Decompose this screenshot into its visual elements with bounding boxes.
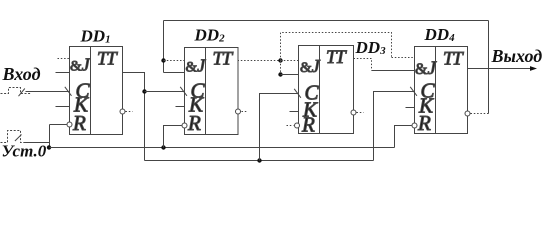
- wire: Q1 bus: [145, 160, 374, 162]
- dynamic input slash at DD4 C: [410, 87, 417, 96]
- wire: Q1 bus up to C of DD4: [374, 92, 415, 161]
- svg-text:R: R: [301, 113, 315, 137]
- svg-text:DD3: DD3: [355, 38, 387, 57]
- dynamic input slash at DD3 C: [294, 89, 301, 98]
- svg-text:Уст.0: Уст.0: [2, 142, 47, 161]
- DD3 divider: [319, 46, 321, 134]
- wire: Q2 down to J2 of DD3 (dotted riser): [280, 61, 282, 75]
- dynamic input slash at DD2 C: [180, 87, 187, 96]
- DD4 divider: [435, 47, 437, 134]
- dynamic input slash at DD1 C: [65, 87, 72, 96]
- DD2 Qbar stub (dotted): [242, 111, 249, 113]
- DD3 Qbar bubble: [351, 110, 356, 115]
- DD1 Qbar stub (dotted): [126, 111, 133, 113]
- flip-flop DD1: [56, 27, 133, 136]
- reset pulse waveform symbol: [1, 131, 26, 143]
- DD2 R bubble: [182, 123, 187, 128]
- output arrowhead: [530, 66, 537, 71]
- wire: Q2 up over DD3 (dotted): [281, 33, 392, 61]
- flip-flop DD2: [176, 26, 249, 136]
- DD1 J2 stub: [56, 72, 70, 74]
- svg-text:Вход: Вход: [2, 64, 41, 84]
- wire: top bus left riser to DD2 J inputs: [163, 21, 165, 73]
- wire: Q4 to output arrow: [468, 68, 533, 70]
- DD3 Qbar stub (dotted): [357, 112, 364, 114]
- wire: reset waveform to node: [24, 142, 50, 144]
- node: Q1 to C2: [142, 89, 146, 93]
- svg-text:&J: &J: [300, 56, 321, 76]
- wire: riser to C of DD3: [260, 94, 299, 161]
- wire: Q2 to &J of DD3 (dotted): [281, 60, 299, 62]
- svg-text:&J: &J: [186, 56, 207, 76]
- DD4 Qbar bubble: [465, 111, 470, 116]
- edge slash on input waveform: [19, 89, 25, 97]
- node: J-input split: [161, 58, 165, 62]
- DD1 K stub: [56, 106, 70, 108]
- flip-flop DD3: [287, 38, 387, 137]
- wire: riser to R of DD2: [164, 126, 182, 148]
- DD4 K stub: [406, 107, 415, 109]
- DD2 K stub: [176, 106, 185, 108]
- wire: Q2 from DD2 (dotted): [238, 60, 281, 62]
- svg-text:TT: TT: [443, 49, 464, 70]
- wire: feedback top bus from Qbar4: [164, 20, 489, 22]
- DD2 body: [185, 48, 239, 135]
- DD3 R bubble: [295, 123, 300, 128]
- svg-text:Выход: Выход: [491, 46, 543, 66]
- DD3 body: [299, 46, 354, 134]
- wire: to &J of DD2 (dotted): [164, 60, 185, 62]
- svg-text:TT: TT: [326, 47, 347, 68]
- node: corner at J2 of DD3: [278, 72, 282, 76]
- wire: Q2 to &J of DD4 (dotted): [392, 57, 415, 59]
- node: reset junction: [47, 145, 51, 149]
- DD4 R bubble: [412, 123, 417, 128]
- wire: vertical reset riser x=49: [49, 125, 51, 148]
- wire: Q3 from DD3 (dotted): [354, 59, 372, 71]
- node: Q1 bus to C3: [257, 158, 261, 162]
- wire: top bus right riser down to Qbar4: [488, 21, 490, 114]
- DD3 K stub: [290, 111, 299, 113]
- DD1 body: [70, 47, 123, 135]
- DD1 J1 stub (dotted): [58, 58, 70, 60]
- edge slash on reset waveform: [15, 135, 22, 142]
- wire: Вход to C of DD1: [26, 91, 70, 93]
- DD1 R bubble: [67, 122, 72, 127]
- node: reset bus to DD2 R: [161, 145, 165, 149]
- svg-text:R: R: [417, 111, 431, 135]
- svg-text:TT: TT: [97, 49, 118, 70]
- DD4 Qbar wire to feedback riser (dotted): [471, 113, 489, 115]
- DD2 Qbar bubble: [236, 109, 241, 114]
- svg-text:&J: &J: [415, 58, 437, 79]
- wire: reset bus: [50, 147, 395, 149]
- svg-text:R: R: [187, 111, 201, 135]
- DD3 R stub (dotted): [287, 125, 294, 127]
- wire: reset bus up to R of DD4: [395, 126, 412, 148]
- svg-text:DD2: DD2: [194, 26, 226, 45]
- DD1 Qbar bubble: [120, 109, 125, 114]
- svg-text:DD4: DD4: [424, 25, 456, 44]
- wire: Q3 to J2 of DD4: [372, 70, 415, 72]
- svg-text:TT: TT: [213, 49, 234, 70]
- wire: to C of DD2: [145, 91, 185, 93]
- wire: to J2 of DD3: [281, 74, 299, 76]
- svg-text:DD1: DD1: [80, 27, 111, 46]
- wire: to J2 of DD2: [164, 72, 185, 74]
- wire: to R of DD1: [50, 124, 67, 126]
- DD4 body: [415, 47, 468, 134]
- DD2 divider: [205, 48, 207, 135]
- svg-text:R: R: [72, 111, 86, 135]
- svg-text:&J: &J: [70, 55, 91, 75]
- wire: Q1 from DD1 down: [123, 73, 145, 161]
- input clock waveform symbol: [1, 88, 32, 94]
- flip-flop DD4: [406, 25, 489, 135]
- DD1 divider: [90, 47, 92, 135]
- node: Q2 split: [278, 58, 282, 62]
